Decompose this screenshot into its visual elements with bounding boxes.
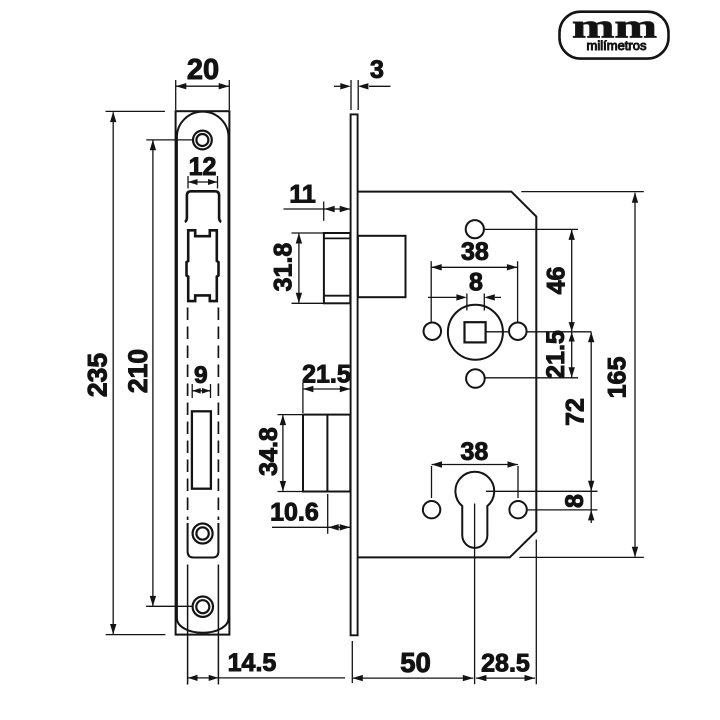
- svg-text:31.8: 31.8: [270, 243, 298, 292]
- svg-text:21.5: 21.5: [302, 361, 351, 389]
- svg-text:50: 50: [400, 647, 431, 678]
- svg-text:72: 72: [561, 398, 589, 426]
- svg-text:12: 12: [189, 153, 217, 181]
- svg-text:8: 8: [469, 269, 483, 297]
- svg-text:46: 46: [542, 267, 570, 295]
- svg-text:8: 8: [561, 494, 589, 508]
- svg-text:34.8: 34.8: [255, 427, 283, 476]
- svg-text:38: 38: [460, 438, 488, 466]
- svg-text:38: 38: [461, 238, 489, 266]
- svg-text:20: 20: [187, 54, 219, 86]
- svg-text:11: 11: [289, 180, 316, 208]
- svg-text:21.5: 21.5: [542, 330, 570, 379]
- svg-text:14.5: 14.5: [228, 649, 277, 677]
- svg-text:235: 235: [83, 353, 113, 397]
- svg-text:165: 165: [604, 357, 632, 399]
- svg-text:10.6: 10.6: [270, 499, 319, 527]
- svg-text:210: 210: [123, 349, 153, 393]
- svg-text:9: 9: [194, 362, 208, 389]
- svg-text:28.5: 28.5: [481, 650, 530, 678]
- svg-text:3: 3: [370, 56, 384, 84]
- svg-text:milímetros: milímetros: [587, 38, 647, 53]
